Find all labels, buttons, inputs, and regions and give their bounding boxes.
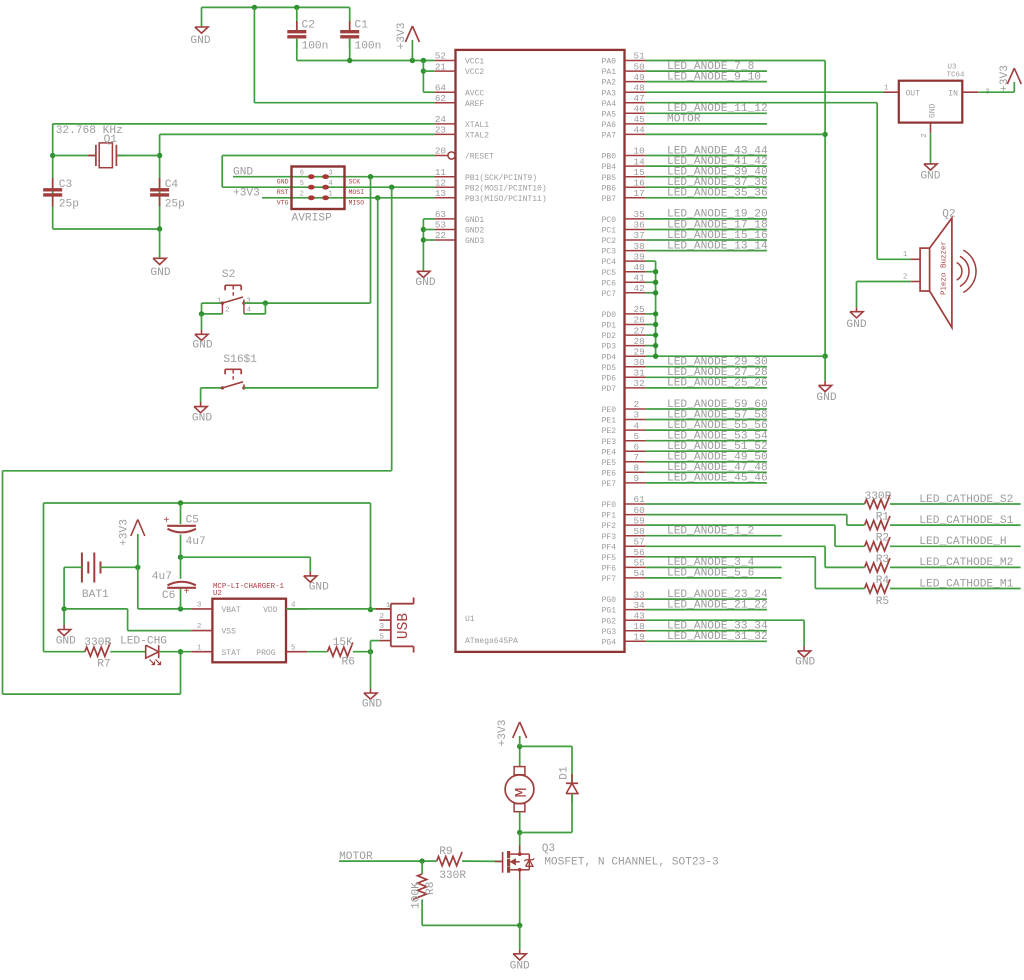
svg-text:PA7: PA7: [602, 132, 617, 141]
svg-text:C6: C6: [162, 590, 175, 602]
svg-text:+3V3: +3V3: [999, 65, 1011, 92]
svg-text:48: 48: [634, 82, 645, 93]
svg-text:31: 31: [634, 368, 646, 379]
svg-text:R1: R1: [876, 512, 890, 524]
svg-text:41: 41: [634, 273, 646, 284]
svg-text:U1: U1: [465, 615, 475, 624]
svg-text:PE3: PE3: [602, 438, 617, 447]
svg-text:LED_ANODE_21_22: LED_ANODE_21_22: [667, 599, 768, 611]
svg-text:PC1: PC1: [602, 227, 617, 236]
svg-text:LED_ANODE_5_6: LED_ANODE_5_6: [667, 568, 754, 580]
svg-text:R5: R5: [876, 596, 889, 608]
svg-text:PA4: PA4: [602, 100, 617, 109]
svg-text:5: 5: [634, 431, 640, 442]
svg-text:PB3(MISO/PCINT11): PB3(MISO/PCINT11): [465, 195, 547, 204]
svg-text:+: +: [163, 516, 169, 527]
svg-text:GND: GND: [415, 277, 435, 289]
svg-text:PA0: PA0: [602, 58, 617, 67]
svg-text:GND: GND: [192, 340, 212, 352]
svg-text:2: 2: [903, 273, 908, 281]
svg-text:PA3: PA3: [602, 89, 617, 98]
svg-text:43: 43: [634, 610, 645, 621]
svg-text:1: 1: [903, 251, 908, 259]
svg-text:64: 64: [435, 82, 447, 93]
svg-text:PC4: PC4: [602, 258, 617, 267]
svg-text:30: 30: [634, 357, 645, 368]
svg-text:330R: 330R: [439, 870, 466, 882]
svg-text:LED_CATHODE_H: LED_CATHODE_H: [919, 536, 1006, 548]
svg-text:R3: R3: [876, 554, 889, 566]
svg-text:22: 22: [435, 230, 446, 241]
svg-text:3: 3: [380, 623, 385, 631]
svg-text:PE7: PE7: [602, 480, 617, 489]
svg-text:IN: IN: [948, 89, 958, 98]
svg-text:MOSFET, N CHANNEL, SOT23-3: MOSFET, N CHANNEL, SOT23-3: [544, 857, 719, 869]
svg-text:GND: GND: [150, 267, 170, 279]
svg-text:C5: C5: [186, 515, 199, 527]
svg-text:U3: U3: [947, 63, 957, 71]
svg-text:M: M: [513, 787, 532, 797]
svg-text:D1: D1: [558, 766, 570, 780]
svg-text:PG1: PG1: [602, 607, 617, 616]
svg-text:PD0: PD0: [602, 311, 617, 320]
svg-text:PB4: PB4: [602, 163, 617, 172]
svg-text:Q3: Q3: [542, 843, 555, 855]
svg-text:47: 47: [634, 93, 645, 104]
svg-text:62: 62: [435, 93, 446, 104]
svg-text:39: 39: [634, 251, 645, 262]
svg-text:BAT1: BAT1: [82, 589, 109, 601]
svg-text:OUT: OUT: [906, 89, 921, 98]
svg-text:1: 1: [329, 191, 333, 199]
svg-text:PD4: PD4: [602, 353, 617, 362]
svg-text:100n: 100n: [355, 40, 382, 52]
svg-text:AVCC: AVCC: [465, 89, 484, 98]
svg-text:LED_ANODE_25_26: LED_ANODE_25_26: [667, 378, 768, 390]
svg-text:GND: GND: [362, 699, 382, 711]
svg-text:R2: R2: [876, 533, 889, 545]
svg-text:RST: RST: [277, 189, 289, 196]
svg-text:6: 6: [300, 170, 304, 178]
svg-text:S16$1: S16$1: [223, 354, 257, 366]
svg-text:21: 21: [435, 61, 447, 72]
svg-text:PB2(MOSI/PCINT10): PB2(MOSI/PCINT10): [465, 184, 547, 193]
svg-text:TC64: TC64: [946, 71, 965, 79]
svg-text:ATmega645PA: ATmega645PA: [465, 637, 518, 646]
svg-text:13: 13: [435, 188, 446, 199]
svg-text:PC7: PC7: [602, 290, 617, 299]
svg-text:PF2: PF2: [602, 522, 617, 531]
svg-text:PC2: PC2: [602, 237, 617, 246]
svg-text:PF5: PF5: [602, 554, 617, 563]
svg-text:38: 38: [634, 241, 645, 252]
svg-text:20: 20: [435, 146, 446, 157]
svg-text:+: +: [184, 587, 190, 598]
svg-text:GND: GND: [510, 961, 530, 973]
svg-text:PB0: PB0: [602, 153, 617, 162]
svg-text:57: 57: [634, 537, 645, 548]
svg-text:1: 1: [217, 297, 222, 305]
svg-text:8: 8: [634, 463, 640, 474]
svg-text:MOTOR: MOTOR: [667, 114, 701, 126]
svg-text:GND: GND: [190, 35, 210, 47]
svg-text:5: 5: [291, 644, 296, 652]
svg-text:PG2: PG2: [602, 617, 617, 626]
svg-text:5: 5: [380, 634, 385, 642]
svg-text:PC3: PC3: [602, 248, 617, 257]
svg-text:15K: 15K: [333, 637, 353, 649]
svg-text:15: 15: [634, 167, 645, 178]
svg-text:Q2: Q2: [942, 208, 955, 220]
svg-text:LED_CATHODE_S1: LED_CATHODE_S1: [919, 515, 1013, 527]
svg-text:PC0: PC0: [602, 216, 617, 225]
svg-text:VDD: VDD: [263, 606, 278, 615]
svg-text:C4: C4: [165, 179, 179, 191]
svg-text:4u7: 4u7: [152, 571, 172, 583]
svg-text:46: 46: [634, 104, 645, 115]
svg-text:18: 18: [634, 621, 645, 632]
svg-text:63: 63: [435, 209, 446, 220]
svg-text:PF4: PF4: [602, 543, 617, 552]
svg-text:42: 42: [634, 283, 645, 294]
svg-text:9: 9: [634, 473, 640, 484]
svg-text:PROG: PROG: [256, 649, 275, 658]
svg-text:C2: C2: [302, 20, 315, 32]
svg-text:+3V3: +3V3: [497, 720, 509, 747]
svg-text:PE1: PE1: [602, 417, 617, 426]
svg-text:GND1: GND1: [465, 216, 484, 225]
svg-text:51: 51: [634, 51, 646, 62]
svg-text:61: 61: [634, 494, 646, 505]
svg-text:VCC2: VCC2: [465, 68, 484, 77]
svg-text:MISO: MISO: [349, 200, 365, 207]
svg-text:LED_ANODE_35_36: LED_ANODE_35_36: [667, 188, 768, 200]
svg-text:XTAL2: XTAL2: [465, 132, 489, 141]
svg-text:Piezo Buzzer: Piezo Buzzer: [940, 241, 948, 295]
svg-text:LED-CHG: LED-CHG: [120, 636, 167, 648]
svg-text:GND: GND: [192, 413, 212, 425]
svg-text:XTAL1: XTAL1: [465, 121, 489, 130]
svg-text:PA2: PA2: [602, 79, 617, 88]
svg-text:34: 34: [634, 600, 646, 611]
svg-text:LED_ANODE_45_46: LED_ANODE_45_46: [667, 473, 768, 485]
svg-text:3: 3: [197, 602, 202, 610]
svg-text:+3V3: +3V3: [233, 188, 260, 200]
svg-text:VSS: VSS: [222, 628, 237, 637]
svg-text:GND2: GND2: [465, 227, 484, 236]
svg-text:7: 7: [634, 452, 640, 463]
svg-text:PF7: PF7: [602, 575, 617, 584]
svg-text:1: 1: [884, 84, 889, 92]
svg-text:50: 50: [634, 61, 645, 72]
svg-text:GND: GND: [920, 171, 940, 183]
svg-text:LED_ANODE_1_2: LED_ANODE_1_2: [667, 526, 754, 538]
svg-text:VCC1: VCC1: [465, 58, 484, 67]
svg-text:330R: 330R: [865, 491, 892, 503]
svg-text:LED_CATHODE_M2: LED_CATHODE_M2: [919, 557, 1013, 569]
svg-text:PE5: PE5: [602, 459, 617, 468]
svg-text:USB: USB: [396, 613, 412, 639]
svg-text:+3V3: +3V3: [118, 519, 130, 546]
svg-text:PF0: PF0: [602, 501, 617, 510]
svg-text:PD7: PD7: [602, 385, 617, 394]
svg-text:36: 36: [634, 220, 645, 231]
svg-text:AVRISP: AVRISP: [292, 213, 333, 225]
svg-text:R8: R8: [425, 882, 437, 895]
svg-text:STAT: STAT: [222, 649, 241, 658]
svg-text:GND: GND: [56, 636, 76, 648]
svg-text:LED_CATHODE_M1: LED_CATHODE_M1: [919, 578, 1013, 590]
svg-text:PD5: PD5: [602, 364, 617, 373]
svg-text:56: 56: [634, 547, 645, 558]
svg-text:11: 11: [435, 167, 447, 178]
svg-text:1: 1: [197, 644, 202, 652]
svg-text:49: 49: [634, 72, 645, 83]
svg-text:PD6: PD6: [602, 374, 617, 383]
svg-text:MOSI: MOSI: [349, 189, 365, 196]
svg-text:PE6: PE6: [602, 469, 617, 478]
svg-text:PA6: PA6: [602, 121, 617, 130]
svg-text:330R: 330R: [84, 637, 111, 649]
svg-text:PF6: PF6: [602, 565, 617, 574]
svg-text:59: 59: [634, 515, 645, 526]
svg-text:GND: GND: [309, 582, 329, 594]
svg-text:2: 2: [300, 191, 304, 199]
svg-text:GND: GND: [795, 657, 815, 669]
svg-text:VBAT: VBAT: [222, 606, 241, 615]
svg-text:100K: 100K: [411, 882, 423, 909]
svg-text:U2: U2: [213, 590, 222, 598]
svg-text:R6: R6: [342, 656, 355, 668]
svg-text:LED_ANODE_31_32: LED_ANODE_31_32: [667, 631, 768, 643]
svg-text:17: 17: [634, 188, 645, 199]
svg-text:10: 10: [634, 146, 645, 157]
svg-text:GND: GND: [233, 167, 253, 179]
svg-text:35: 35: [634, 209, 645, 220]
svg-text:GND: GND: [928, 103, 937, 118]
svg-text:2: 2: [921, 133, 929, 138]
svg-text:6: 6: [634, 441, 640, 452]
svg-text:24: 24: [435, 114, 447, 125]
svg-text:GND: GND: [816, 392, 836, 404]
svg-text:LED_CATHODE_S2: LED_CATHODE_S2: [919, 494, 1013, 506]
svg-text:GND3: GND3: [465, 237, 484, 246]
svg-text:PE4: PE4: [602, 448, 617, 457]
svg-text:Q1: Q1: [104, 134, 118, 146]
svg-text:PD3: PD3: [602, 343, 617, 352]
svg-text:PC5: PC5: [602, 269, 617, 278]
svg-text:LED_ANODE_13_14: LED_ANODE_13_14: [667, 240, 768, 252]
svg-text:60: 60: [634, 505, 645, 516]
svg-text:4u7: 4u7: [186, 536, 206, 548]
svg-text:PC6: PC6: [602, 279, 617, 288]
svg-text:2: 2: [225, 307, 230, 315]
svg-text:4: 4: [634, 420, 640, 431]
svg-text:3: 3: [329, 170, 333, 178]
svg-text:PE0: PE0: [602, 406, 617, 415]
svg-text:52: 52: [435, 51, 446, 62]
svg-text:AREF: AREF: [465, 100, 484, 109]
svg-text:25p: 25p: [59, 199, 79, 211]
svg-text:45: 45: [634, 114, 645, 125]
svg-text:3: 3: [246, 297, 251, 305]
svg-text:VTG: VTG: [277, 200, 289, 207]
svg-text:LED_ANODE_9_10: LED_ANODE_9_10: [667, 71, 761, 83]
svg-text:PB7: PB7: [602, 195, 617, 204]
svg-text:PF1: PF1: [602, 512, 617, 521]
svg-text:S2: S2: [222, 269, 235, 281]
svg-text:28: 28: [634, 336, 645, 347]
svg-text:37: 37: [634, 230, 645, 241]
svg-text:PG0: PG0: [602, 596, 617, 605]
svg-text:29: 29: [634, 346, 645, 357]
svg-text:C3: C3: [59, 179, 72, 191]
svg-text:PD2: PD2: [602, 332, 617, 341]
svg-text:55: 55: [634, 558, 645, 569]
svg-text:PD1: PD1: [602, 322, 617, 331]
svg-text:2: 2: [197, 623, 202, 631]
svg-text:3: 3: [634, 410, 640, 421]
svg-text:GND: GND: [846, 319, 866, 331]
svg-text:16: 16: [634, 177, 645, 188]
svg-text:58: 58: [634, 526, 645, 537]
svg-text:25: 25: [634, 304, 645, 315]
svg-text:+3V3: +3V3: [396, 23, 408, 50]
svg-text:PE2: PE2: [602, 427, 617, 436]
svg-text:33: 33: [634, 589, 645, 600]
svg-text:R4: R4: [876, 575, 890, 587]
svg-text:PA5: PA5: [602, 110, 617, 119]
svg-text:PB1(SCK/PCINT9): PB1(SCK/PCINT9): [465, 174, 537, 183]
svg-text:23: 23: [435, 125, 446, 136]
svg-text:12: 12: [435, 177, 446, 188]
svg-text:100n: 100n: [302, 40, 329, 52]
svg-text:5: 5: [300, 180, 304, 188]
svg-text:PG4: PG4: [602, 638, 617, 647]
svg-text:40: 40: [634, 262, 645, 273]
svg-text:27: 27: [634, 325, 645, 336]
svg-text:PA1: PA1: [602, 68, 617, 77]
svg-text:19: 19: [634, 632, 645, 643]
svg-text:14: 14: [634, 156, 646, 167]
svg-text:PB6: PB6: [602, 184, 617, 193]
svg-text:C1: C1: [355, 20, 369, 32]
svg-text:R9: R9: [439, 846, 452, 858]
svg-text:R7: R7: [97, 659, 110, 671]
svg-text:GND: GND: [277, 178, 289, 185]
svg-text:MOTOR: MOTOR: [339, 851, 373, 863]
svg-text:MCP-LI-CHARGER-1: MCP-LI-CHARGER-1: [213, 583, 285, 591]
svg-text:/RESET: /RESET: [465, 153, 494, 162]
svg-text:2: 2: [380, 613, 385, 621]
svg-text:32: 32: [634, 378, 645, 389]
svg-text:2: 2: [634, 399, 640, 410]
svg-text:1: 1: [386, 602, 391, 610]
svg-text:54: 54: [634, 568, 646, 579]
svg-text:25p: 25p: [165, 199, 185, 211]
svg-text:SCK: SCK: [349, 178, 361, 185]
svg-text:44: 44: [634, 125, 646, 136]
svg-text:PG3: PG3: [602, 628, 617, 637]
svg-text:26: 26: [634, 315, 645, 326]
svg-text:PF3: PF3: [602, 533, 617, 542]
svg-text:4: 4: [329, 180, 333, 188]
svg-text:PB5: PB5: [602, 174, 617, 183]
svg-text:53: 53: [435, 220, 446, 231]
